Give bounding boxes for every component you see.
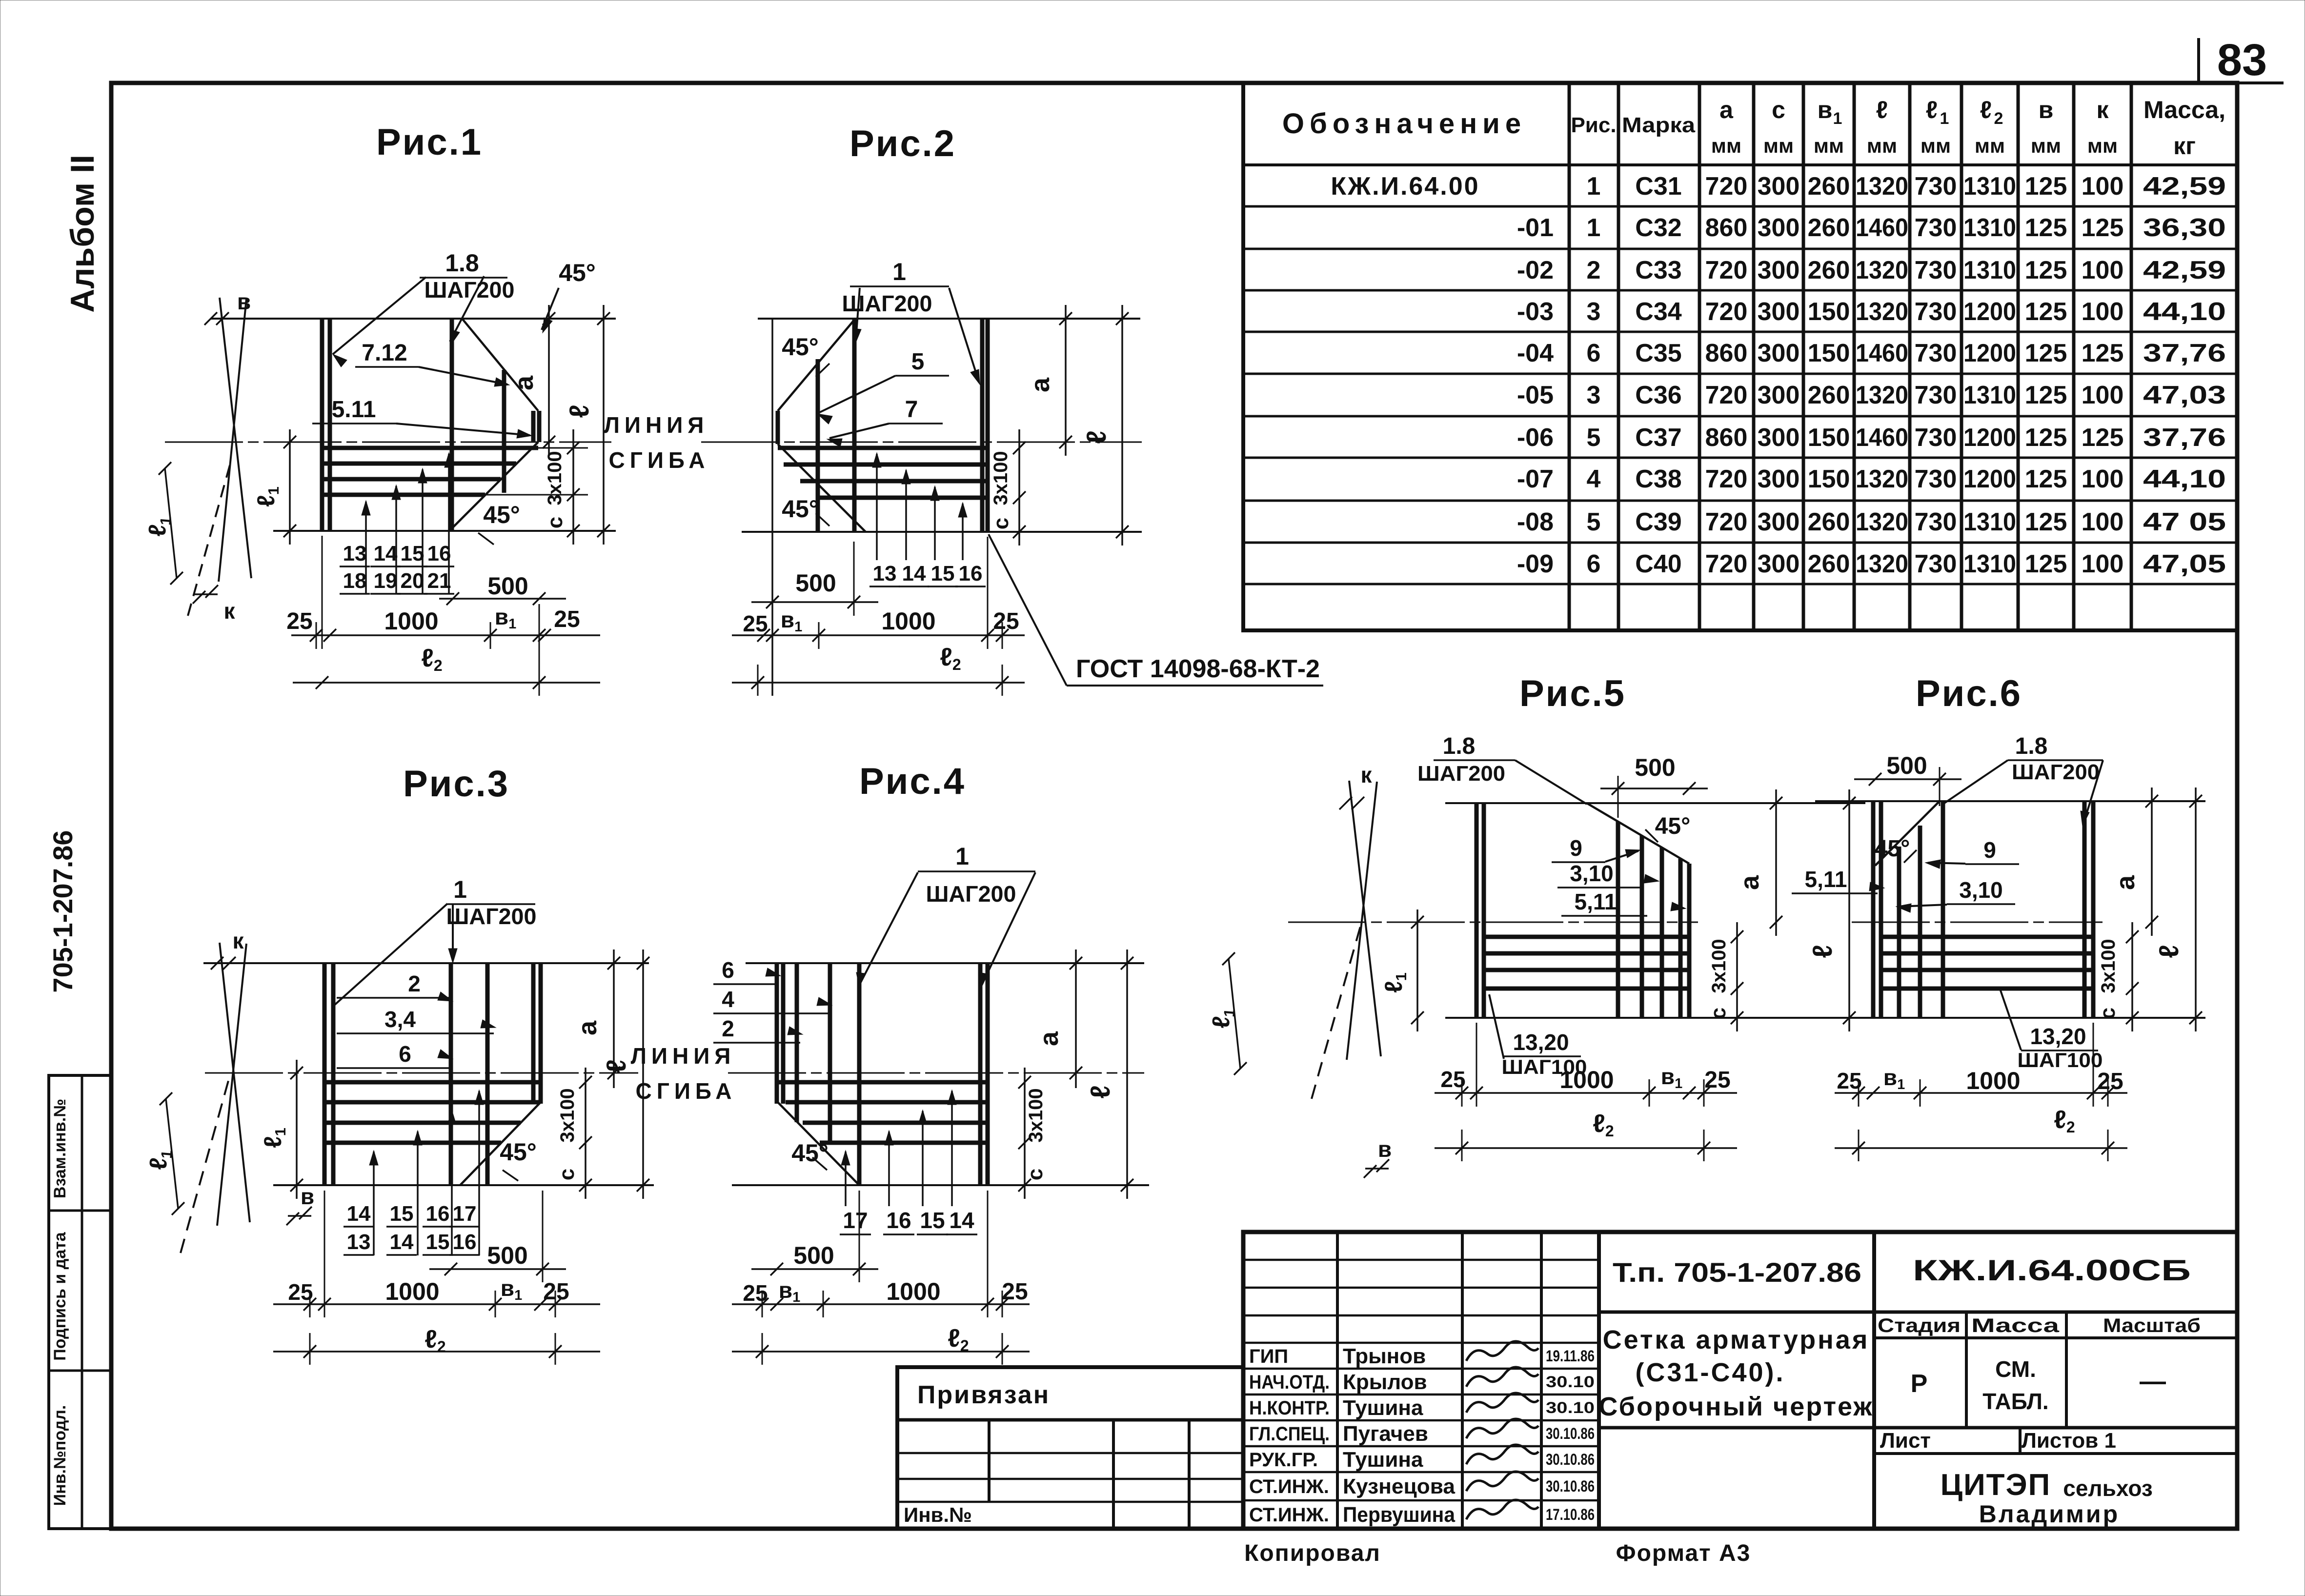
svg-text:в: в bbox=[301, 1184, 314, 1209]
svg-text:ℓ: ℓ bbox=[1081, 430, 1112, 444]
svg-text:НАЧ.ОТД.: НАЧ.ОТД. bbox=[1249, 1372, 1330, 1393]
svg-text:17.10.86: 17.10.86 bbox=[1546, 1506, 1595, 1523]
svg-text:125: 125 bbox=[2025, 508, 2067, 536]
svg-text:Р: Р bbox=[1911, 1370, 1928, 1398]
svg-text:-06: -06 bbox=[1517, 424, 1554, 452]
svg-text:100: 100 bbox=[2082, 381, 2124, 409]
svg-text:45°: 45° bbox=[500, 1138, 537, 1166]
svg-text:16: 16 bbox=[427, 542, 451, 566]
svg-text:-03: -03 bbox=[1517, 298, 1554, 326]
svg-text:1: 1 bbox=[1940, 109, 1949, 128]
svg-text:1320: 1320 bbox=[1856, 172, 1908, 201]
svg-text:5: 5 bbox=[1587, 508, 1601, 536]
svg-text:300: 300 bbox=[1758, 508, 1800, 536]
svg-text:Пугачев: Пугачев bbox=[1343, 1422, 1428, 1446]
svg-text:Масса,: Масса, bbox=[2143, 96, 2225, 123]
svg-text:13,20: 13,20 bbox=[1513, 1030, 1569, 1055]
svg-text:С38: С38 bbox=[1635, 465, 1681, 493]
svg-text:9: 9 bbox=[1983, 837, 1996, 863]
svg-text:16: 16 bbox=[886, 1208, 911, 1233]
svg-text:3: 3 bbox=[1587, 298, 1601, 326]
svg-text:мм: мм bbox=[1711, 134, 1741, 157]
svg-text:c: c bbox=[1772, 96, 1785, 123]
svg-text:Рис.1: Рис.1 bbox=[376, 121, 483, 163]
svg-text:15: 15 bbox=[401, 542, 425, 566]
svg-text:с: с bbox=[543, 517, 567, 528]
svg-text:Трынов: Трынов bbox=[1343, 1344, 1426, 1368]
svg-text:720: 720 bbox=[1705, 172, 1748, 201]
svg-text:125: 125 bbox=[2025, 298, 2067, 326]
svg-text:1460: 1460 bbox=[1856, 214, 1908, 242]
svg-text:Листов 1: Листов 1 bbox=[2022, 1429, 2116, 1453]
svg-text:мм: мм bbox=[1921, 134, 1951, 157]
svg-text:730: 730 bbox=[1915, 550, 1957, 578]
svg-text:1460: 1460 bbox=[1856, 339, 1908, 367]
svg-text:500: 500 bbox=[1635, 754, 1675, 781]
svg-text:260: 260 bbox=[1808, 550, 1850, 578]
svg-text:45°: 45° bbox=[1875, 836, 1910, 862]
svg-text:16: 16 bbox=[426, 1202, 450, 1226]
svg-text:13,20: 13,20 bbox=[2030, 1024, 2086, 1049]
svg-text:45°: 45° bbox=[782, 495, 819, 523]
svg-text:730: 730 bbox=[1915, 381, 1957, 409]
svg-text:125: 125 bbox=[2082, 339, 2124, 367]
svg-text:Сборочный чертеж: Сборочный чертеж bbox=[1598, 1392, 1873, 1421]
svg-text:ШАГ200: ШАГ200 bbox=[1417, 762, 1505, 786]
svg-text:с: с bbox=[2096, 1008, 2120, 1019]
svg-text:3х100: 3х100 bbox=[544, 451, 566, 505]
svg-text:СГИБА: СГИБА bbox=[609, 447, 710, 473]
svg-text:СГИБА: СГИБА bbox=[636, 1078, 737, 1104]
svg-text:-05: -05 bbox=[1517, 381, 1554, 409]
svg-text:-08: -08 bbox=[1517, 508, 1554, 536]
svg-text:300: 300 bbox=[1758, 424, 1800, 452]
svg-text:к: к bbox=[232, 928, 244, 953]
svg-text:7.12: 7.12 bbox=[362, 340, 407, 366]
svg-text:ГОСТ 14098-68-КТ-2: ГОСТ 14098-68-КТ-2 bbox=[1076, 655, 1320, 683]
svg-text:730: 730 bbox=[1915, 256, 1957, 284]
svg-text:500: 500 bbox=[1886, 752, 1927, 779]
svg-text:13: 13 bbox=[873, 562, 897, 586]
svg-text:730: 730 bbox=[1915, 214, 1957, 242]
svg-text:125: 125 bbox=[2082, 214, 2124, 242]
svg-text:РУК.ГР.: РУК.ГР. bbox=[1249, 1449, 1318, 1471]
svg-text:a: a bbox=[573, 1020, 602, 1035]
svg-text:7: 7 bbox=[905, 397, 918, 423]
svg-text:14: 14 bbox=[374, 542, 398, 566]
svg-text:1: 1 bbox=[955, 843, 969, 870]
svg-text:860: 860 bbox=[1705, 214, 1748, 242]
svg-text:6: 6 bbox=[1587, 339, 1601, 367]
svg-text:30.10.86: 30.10.86 bbox=[1546, 1425, 1595, 1442]
svg-text:14: 14 bbox=[347, 1202, 371, 1226]
svg-text:1: 1 bbox=[1833, 109, 1842, 128]
svg-text:25: 25 bbox=[743, 611, 768, 636]
svg-text:25: 25 bbox=[543, 1279, 569, 1305]
svg-text:Владимир: Владимир bbox=[1979, 1500, 2120, 1528]
svg-text:15: 15 bbox=[426, 1230, 450, 1254]
svg-text:730: 730 bbox=[1915, 339, 1957, 367]
svg-text:1.8: 1.8 bbox=[445, 249, 479, 277]
svg-text:125: 125 bbox=[2082, 424, 2124, 452]
svg-text:ℓ: ℓ bbox=[1085, 1085, 1115, 1098]
svg-text:Взам.инв.№: Взам.инв.№ bbox=[51, 1099, 69, 1198]
svg-text:-02: -02 bbox=[1517, 256, 1554, 284]
svg-text:1460: 1460 bbox=[1856, 424, 1908, 452]
svg-text:ШАГ200: ШАГ200 bbox=[446, 904, 537, 929]
svg-text:СТ.ИНЖ.: СТ.ИНЖ. bbox=[1249, 1476, 1329, 1497]
svg-text:47,05: 47,05 bbox=[2143, 550, 2226, 578]
svg-text:3,10: 3,10 bbox=[1570, 861, 1614, 886]
svg-text:30.10: 30.10 bbox=[1546, 1373, 1595, 1391]
svg-text:3х100: 3х100 bbox=[2098, 939, 2119, 993]
svg-text:44,10: 44,10 bbox=[2143, 298, 2226, 326]
svg-text:25: 25 bbox=[554, 606, 580, 632]
svg-text:С35: С35 bbox=[1635, 339, 1681, 367]
svg-text:730: 730 bbox=[1915, 424, 1957, 452]
svg-text:Рис.: Рис. bbox=[1571, 113, 1616, 137]
svg-text:ℓ: ℓ bbox=[2153, 945, 2184, 958]
svg-text:Н.КОНТР.: Н.КОНТР. bbox=[1249, 1397, 1330, 1419]
svg-text:1320: 1320 bbox=[1856, 508, 1908, 536]
svg-text:125: 125 bbox=[2025, 424, 2067, 452]
svg-text:с: с bbox=[1023, 1169, 1047, 1180]
svg-text:125: 125 bbox=[2025, 339, 2067, 367]
svg-text:a: a bbox=[1735, 875, 1764, 890]
svg-text:Первушина: Первушина bbox=[1343, 1503, 1455, 1527]
svg-text:500: 500 bbox=[487, 1242, 527, 1269]
svg-text:-04: -04 bbox=[1517, 339, 1554, 367]
svg-text:СТ.ИНЖ.: СТ.ИНЖ. bbox=[1249, 1504, 1329, 1526]
svg-text:300: 300 bbox=[1758, 465, 1800, 493]
svg-text:83: 83 bbox=[2217, 35, 2267, 85]
svg-text:19: 19 bbox=[374, 569, 398, 593]
svg-text:Обозначение: Обозначение bbox=[1282, 108, 1526, 140]
svg-text:1320: 1320 bbox=[1856, 465, 1908, 493]
svg-text:260: 260 bbox=[1808, 508, 1850, 536]
svg-text:125: 125 bbox=[2025, 550, 2067, 578]
svg-text:Кузнецова: Кузнецова bbox=[1343, 1475, 1456, 1498]
svg-text:1000: 1000 bbox=[881, 607, 935, 635]
svg-text:Рис.4: Рис.4 bbox=[859, 761, 966, 802]
svg-text:15: 15 bbox=[931, 562, 955, 586]
svg-text:125: 125 bbox=[2025, 256, 2067, 284]
svg-text:КЖ.И.64.00: КЖ.И.64.00 bbox=[1331, 172, 1479, 201]
svg-text:300: 300 bbox=[1758, 381, 1800, 409]
svg-text:42,59: 42,59 bbox=[2143, 256, 2226, 284]
svg-text:17: 17 bbox=[453, 1202, 477, 1226]
svg-text:150: 150 bbox=[1808, 298, 1850, 326]
svg-text:1: 1 bbox=[892, 258, 906, 285]
svg-text:-09: -09 bbox=[1517, 550, 1554, 578]
svg-text:5: 5 bbox=[1587, 424, 1601, 452]
svg-text:25: 25 bbox=[286, 608, 312, 634]
svg-text:125: 125 bbox=[2025, 465, 2067, 493]
svg-text:300: 300 bbox=[1758, 298, 1800, 326]
svg-text:мм: мм bbox=[1975, 134, 2005, 157]
svg-text:Привязан: Привязан bbox=[917, 1381, 1050, 1409]
svg-text:36,30: 36,30 bbox=[2143, 214, 2226, 242]
svg-text:720: 720 bbox=[1705, 465, 1748, 493]
svg-text:1310: 1310 bbox=[1963, 550, 2016, 578]
svg-text:45°: 45° bbox=[559, 259, 596, 286]
svg-text:125: 125 bbox=[2025, 381, 2067, 409]
svg-text:ТАБЛ.: ТАБЛ. bbox=[1982, 1389, 2048, 1414]
svg-text:13: 13 bbox=[343, 542, 367, 566]
svg-text:720: 720 bbox=[1705, 550, 1748, 578]
svg-text:16: 16 bbox=[959, 562, 983, 586]
svg-text:мм: мм bbox=[2031, 134, 2061, 157]
svg-text:37,76: 37,76 bbox=[2143, 339, 2226, 367]
svg-text:100: 100 bbox=[2082, 172, 2124, 201]
svg-text:720: 720 bbox=[1705, 381, 1748, 409]
svg-text:3х100: 3х100 bbox=[1025, 1088, 1047, 1142]
svg-text:500: 500 bbox=[795, 569, 836, 597]
svg-text:14: 14 bbox=[390, 1230, 414, 1254]
svg-text:260: 260 bbox=[1808, 214, 1850, 242]
svg-text:Альбом II: Альбом II bbox=[64, 155, 101, 313]
svg-text:a: a bbox=[1026, 377, 1055, 392]
svg-text:100: 100 bbox=[2082, 298, 2124, 326]
svg-text:Копировал: Копировал bbox=[1244, 1540, 1381, 1566]
svg-text:a: a bbox=[2111, 875, 2140, 890]
svg-text:к: к bbox=[223, 598, 235, 624]
svg-text:2: 2 bbox=[1587, 256, 1601, 284]
svg-text:125: 125 bbox=[2025, 172, 2067, 201]
svg-text:1.8: 1.8 bbox=[2015, 733, 2048, 759]
svg-text:730: 730 bbox=[1915, 298, 1957, 326]
svg-text:Крылов: Крылов bbox=[1343, 1370, 1427, 1394]
svg-text:1000: 1000 bbox=[385, 1278, 439, 1305]
svg-text:мм: мм bbox=[1867, 134, 1897, 157]
svg-text:6: 6 bbox=[399, 1041, 411, 1067]
svg-text:9: 9 bbox=[1570, 835, 1582, 861]
svg-text:ШАГ200: ШАГ200 bbox=[2012, 760, 2100, 784]
svg-text:260: 260 bbox=[1808, 172, 1850, 201]
svg-text:3: 3 bbox=[1587, 381, 1601, 409]
svg-text:КЖ.И.64.00СБ: КЖ.И.64.00СБ bbox=[1913, 1254, 2191, 1287]
svg-text:4: 4 bbox=[722, 987, 734, 1012]
svg-text:мм: мм bbox=[1763, 134, 1794, 157]
svg-text:в: в bbox=[2039, 96, 2054, 123]
svg-text:1.8: 1.8 bbox=[1443, 733, 1476, 759]
svg-text:кг: кг bbox=[2173, 132, 2196, 160]
svg-text:15: 15 bbox=[390, 1202, 414, 1226]
svg-text:45°: 45° bbox=[782, 333, 819, 361]
svg-text:300: 300 bbox=[1758, 550, 1800, 578]
svg-text:1310: 1310 bbox=[1963, 172, 2016, 201]
svg-text:3х100: 3х100 bbox=[990, 451, 1011, 505]
svg-text:500: 500 bbox=[487, 572, 528, 600]
svg-text:720: 720 bbox=[1705, 298, 1748, 326]
svg-text:1000: 1000 bbox=[384, 607, 438, 635]
svg-text:Масштаб: Масштаб bbox=[2103, 1315, 2201, 1336]
svg-text:a: a bbox=[1034, 1031, 1064, 1046]
svg-text:45°: 45° bbox=[483, 501, 520, 528]
svg-text:1310: 1310 bbox=[1963, 508, 2016, 536]
svg-text:3х100: 3х100 bbox=[1708, 939, 1730, 993]
svg-text:125: 125 bbox=[2025, 214, 2067, 242]
svg-text:ГИП: ГИП bbox=[1249, 1346, 1288, 1367]
svg-text:Масса: Масса bbox=[1971, 1315, 2060, 1336]
svg-text:150: 150 bbox=[1808, 424, 1850, 452]
svg-text:Тушина: Тушина bbox=[1343, 1448, 1423, 1472]
svg-text:-01: -01 bbox=[1517, 214, 1554, 242]
svg-text:300: 300 bbox=[1758, 214, 1800, 242]
svg-text:ℓ: ℓ bbox=[1876, 96, 1888, 123]
svg-text:к: к bbox=[2096, 96, 2109, 123]
svg-text:СМ.: СМ. bbox=[1995, 1356, 2036, 1382]
svg-text:17: 17 bbox=[843, 1208, 868, 1233]
svg-text:14: 14 bbox=[949, 1208, 974, 1233]
svg-text:100: 100 bbox=[2082, 508, 2124, 536]
svg-text:5: 5 bbox=[911, 349, 925, 375]
svg-text:1310: 1310 bbox=[1963, 214, 2016, 242]
svg-text:1200: 1200 bbox=[1963, 424, 2016, 452]
svg-text:15: 15 bbox=[920, 1208, 945, 1233]
svg-text:С32: С32 bbox=[1635, 214, 1681, 242]
svg-text:150: 150 bbox=[1808, 465, 1850, 493]
svg-text:с: с bbox=[1706, 1008, 1730, 1019]
svg-text:1200: 1200 bbox=[1963, 298, 2016, 326]
svg-text:С37: С37 bbox=[1635, 424, 1681, 452]
svg-text:С33: С33 bbox=[1635, 256, 1681, 284]
svg-text:37,76: 37,76 bbox=[2143, 424, 2226, 452]
svg-text:1320: 1320 bbox=[1856, 550, 1908, 578]
svg-text:1000: 1000 bbox=[1559, 1066, 1614, 1093]
svg-text:44,10: 44,10 bbox=[2143, 465, 2226, 493]
svg-text:С39: С39 bbox=[1635, 508, 1681, 536]
svg-text:Стадия: Стадия bbox=[1878, 1315, 1961, 1336]
svg-text:мм: мм bbox=[1814, 134, 1844, 157]
svg-text:1320: 1320 bbox=[1856, 256, 1908, 284]
svg-text:16: 16 bbox=[453, 1230, 477, 1254]
svg-text:1: 1 bbox=[1587, 172, 1601, 201]
svg-text:с: с bbox=[555, 1169, 579, 1180]
svg-text:18: 18 bbox=[343, 569, 367, 593]
svg-text:мм: мм bbox=[2087, 134, 2118, 157]
svg-text:Тушина: Тушина bbox=[1343, 1396, 1423, 1420]
svg-text:к: к bbox=[1360, 762, 1372, 788]
svg-text:Инв.№подл.: Инв.№подл. bbox=[51, 1405, 69, 1506]
svg-text:С31: С31 bbox=[1635, 172, 1681, 201]
svg-text:860: 860 bbox=[1705, 339, 1748, 367]
svg-text:Рис.2: Рис.2 bbox=[849, 123, 956, 164]
svg-text:45°: 45° bbox=[791, 1139, 829, 1167]
svg-text:13: 13 bbox=[347, 1230, 371, 1254]
svg-text:a: a bbox=[1719, 96, 1734, 123]
svg-text:300: 300 bbox=[1758, 172, 1800, 201]
svg-text:С36: С36 bbox=[1635, 381, 1681, 409]
svg-text:Т.п. 705-1-207.86: Т.п. 705-1-207.86 bbox=[1613, 1257, 1861, 1288]
svg-text:Сетка арматурная: Сетка арматурная bbox=[1603, 1325, 1870, 1354]
svg-text:Подпись и дата: Подпись и дата bbox=[51, 1232, 69, 1361]
svg-text:4: 4 bbox=[1587, 465, 1601, 493]
svg-text:ШАГ100: ШАГ100 bbox=[2018, 1049, 2103, 1071]
svg-text:5,11: 5,11 bbox=[1805, 867, 1847, 892]
svg-text:1: 1 bbox=[1587, 214, 1601, 242]
svg-text:ℓ: ℓ bbox=[564, 404, 594, 418]
svg-text:Лист: Лист bbox=[1880, 1429, 1931, 1453]
svg-text:20: 20 bbox=[401, 569, 425, 593]
svg-text:1320: 1320 bbox=[1856, 298, 1908, 326]
svg-text:ШАГ200: ШАГ200 bbox=[926, 881, 1016, 907]
svg-text:ШАГ200: ШАГ200 bbox=[425, 277, 515, 303]
svg-text:2: 2 bbox=[1994, 109, 2003, 128]
svg-text:260: 260 bbox=[1808, 256, 1850, 284]
svg-text:ГЛ.СПЕЦ.: ГЛ.СПЕЦ. bbox=[1249, 1423, 1330, 1445]
svg-text:30.10.86: 30.10.86 bbox=[1546, 1477, 1595, 1495]
svg-text:1000: 1000 bbox=[886, 1278, 940, 1305]
svg-text:150: 150 bbox=[1808, 339, 1850, 367]
svg-text:100: 100 bbox=[2082, 550, 2124, 578]
svg-text:—: — bbox=[2140, 1367, 2166, 1396]
svg-text:19.11.86: 19.11.86 bbox=[1546, 1347, 1595, 1365]
svg-text:ШАГ200: ШАГ200 bbox=[842, 291, 932, 316]
svg-text:сельхоз: сельхоз bbox=[2063, 1475, 2152, 1501]
svg-text:Рис.6: Рис.6 bbox=[1916, 673, 2022, 714]
svg-text:300: 300 bbox=[1758, 256, 1800, 284]
svg-text:1: 1 bbox=[453, 876, 467, 903]
svg-text:Инв.№: Инв.№ bbox=[904, 1503, 972, 1526]
svg-text:730: 730 bbox=[1915, 172, 1957, 201]
svg-text:Рис.5: Рис.5 bbox=[1519, 673, 1626, 714]
svg-text:ЛИНИЯ: ЛИНИЯ bbox=[604, 412, 709, 438]
svg-text:1200: 1200 bbox=[1963, 465, 2016, 493]
svg-text:720: 720 bbox=[1705, 256, 1748, 284]
svg-text:3х100: 3х100 bbox=[557, 1088, 578, 1142]
svg-text:45°: 45° bbox=[1655, 813, 1691, 839]
svg-text:6: 6 bbox=[722, 957, 734, 983]
svg-text:1320: 1320 bbox=[1856, 381, 1908, 409]
svg-text:21: 21 bbox=[427, 569, 451, 593]
svg-text:260: 260 bbox=[1808, 381, 1850, 409]
svg-text:в: в bbox=[1818, 96, 1833, 123]
svg-text:ЦИТЭП: ЦИТЭП bbox=[1941, 1468, 2051, 1502]
svg-text:100: 100 bbox=[2082, 256, 2124, 284]
svg-text:720: 720 bbox=[1705, 508, 1748, 536]
svg-text:a: a bbox=[509, 375, 539, 390]
svg-text:3,10: 3,10 bbox=[1959, 877, 2003, 903]
svg-text:с: с bbox=[989, 518, 1013, 529]
svg-text:ℓ: ℓ bbox=[601, 1059, 631, 1072]
svg-text:в: в bbox=[237, 289, 251, 314]
svg-text:5,11: 5,11 bbox=[1575, 889, 1617, 914]
svg-text:1310: 1310 bbox=[1963, 256, 2016, 284]
svg-text:30.10.86: 30.10.86 bbox=[1546, 1451, 1595, 1468]
svg-text:Формат А3: Формат А3 bbox=[1616, 1540, 1751, 1566]
svg-text:ℓ: ℓ bbox=[1926, 96, 1938, 123]
svg-text:в: в bbox=[1378, 1136, 1392, 1162]
svg-text:300: 300 bbox=[1758, 339, 1800, 367]
svg-text:Марка: Марка bbox=[1622, 113, 1696, 137]
svg-text:ЛИНИЯ: ЛИНИЯ bbox=[631, 1043, 736, 1069]
svg-text:42,59: 42,59 bbox=[2143, 172, 2226, 201]
svg-text:1310: 1310 bbox=[1963, 381, 2016, 409]
svg-text:ℓ: ℓ bbox=[1980, 96, 1992, 123]
svg-text:2: 2 bbox=[722, 1016, 734, 1041]
svg-text:47 05: 47 05 bbox=[2143, 508, 2226, 536]
svg-text:14: 14 bbox=[902, 562, 926, 586]
svg-text:860: 860 bbox=[1705, 424, 1748, 452]
svg-text:30.10: 30.10 bbox=[1546, 1399, 1595, 1416]
svg-text:1000: 1000 bbox=[1966, 1067, 2020, 1094]
svg-text:(С31-С40).: (С31-С40). bbox=[1635, 1358, 1785, 1387]
svg-text:730: 730 bbox=[1915, 465, 1957, 493]
svg-text:730: 730 bbox=[1915, 508, 1957, 536]
svg-text:705-1-207.86: 705-1-207.86 bbox=[47, 830, 78, 992]
svg-text:47,03: 47,03 bbox=[2143, 381, 2226, 409]
